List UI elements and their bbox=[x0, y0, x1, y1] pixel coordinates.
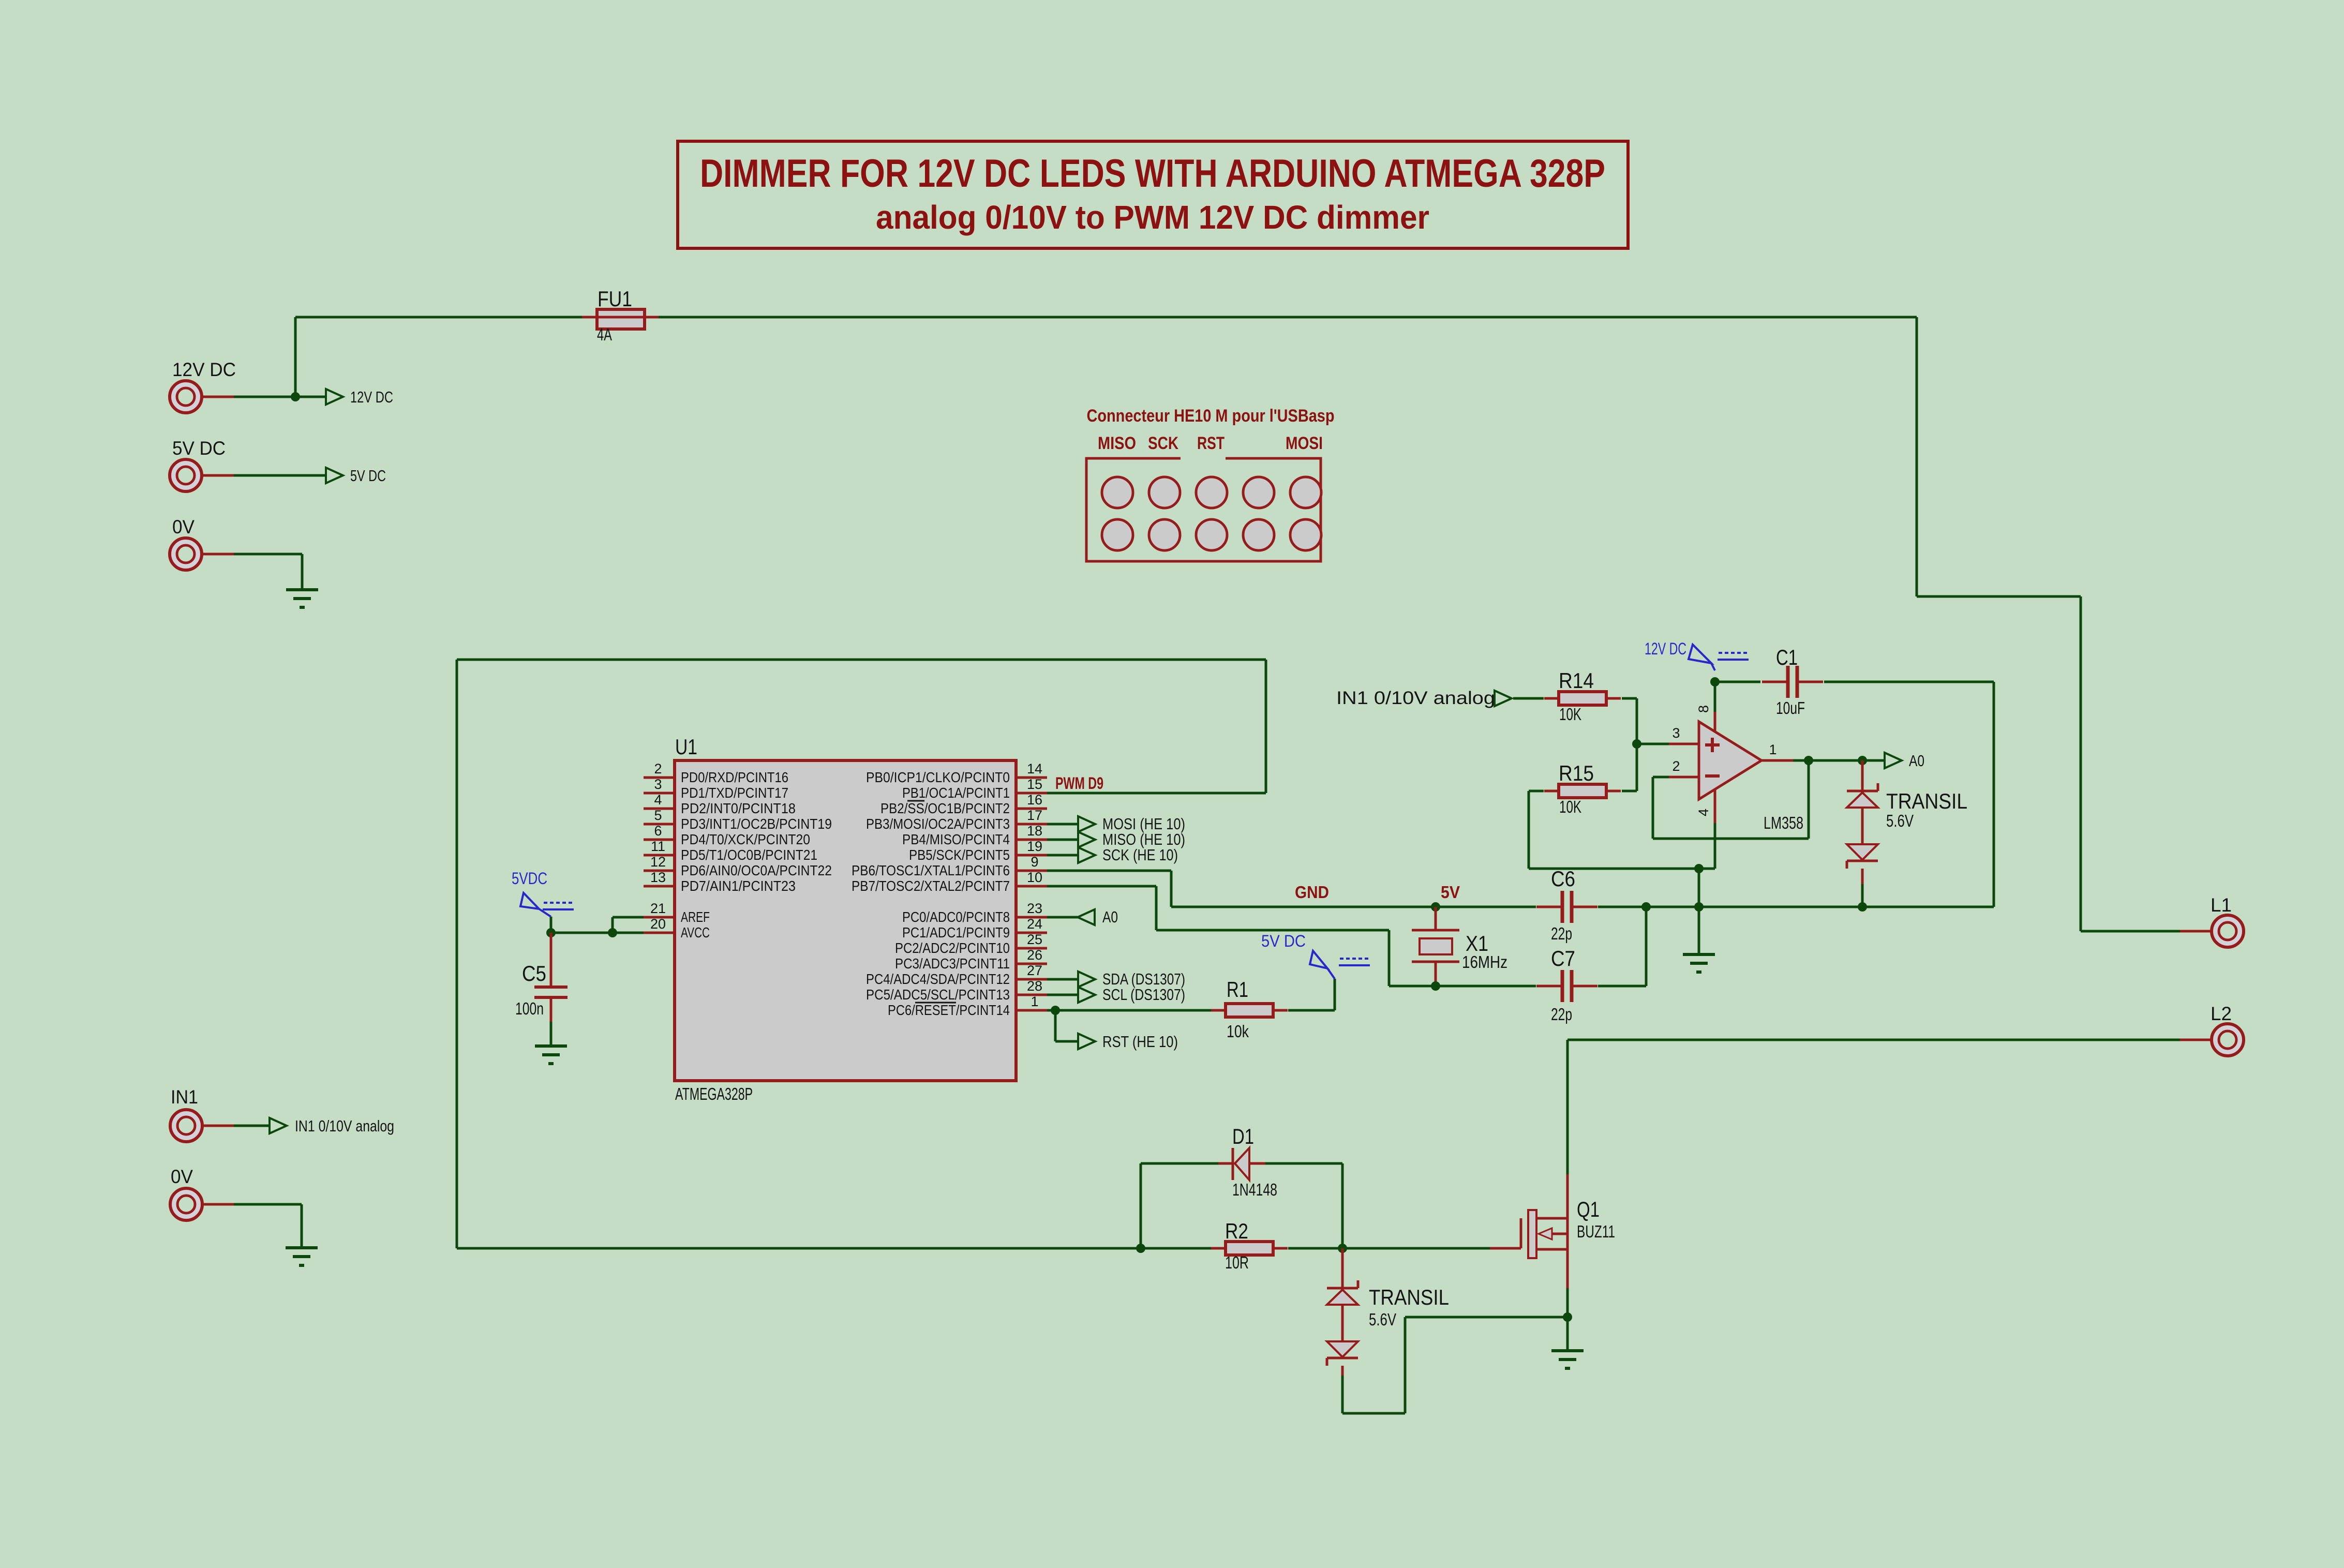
svg-text:PD0/RXD/PCINT16: PD0/RXD/PCINT16 bbox=[681, 769, 788, 785]
svg-text:13: 13 bbox=[650, 870, 666, 885]
svg-text:5V DC: 5V DC bbox=[172, 438, 226, 459]
svg-text:28: 28 bbox=[1027, 978, 1042, 994]
svg-text:PB3/MOSI/OC2A/PCINT3: PB3/MOSI/OC2A/PCINT3 bbox=[866, 816, 1010, 832]
svg-text:Q1: Q1 bbox=[1577, 1197, 1600, 1221]
svg-text:5VDC: 5VDC bbox=[512, 869, 547, 888]
svg-text:R15: R15 bbox=[1559, 761, 1594, 785]
svg-text:FU1: FU1 bbox=[598, 287, 632, 311]
svg-text:18: 18 bbox=[1027, 823, 1042, 839]
svg-text:27: 27 bbox=[1027, 963, 1042, 978]
svg-text:PD2/INT0/PCINT18: PD2/INT0/PCINT18 bbox=[681, 800, 796, 816]
svg-text:IN1: IN1 bbox=[171, 1086, 198, 1108]
svg-text:C1: C1 bbox=[1776, 645, 1798, 669]
svg-text:16MHz: 16MHz bbox=[1462, 952, 1507, 972]
svg-text:PB2/SS/OC1B/PCINT2: PB2/SS/OC1B/PCINT2 bbox=[880, 800, 1010, 816]
svg-text:26: 26 bbox=[1027, 947, 1042, 963]
svg-text:PB0/ICP1/CLKO/PCINT0: PB0/ICP1/CLKO/PCINT0 bbox=[866, 769, 1010, 785]
svg-text:10K: 10K bbox=[1559, 705, 1581, 724]
svg-text:22p: 22p bbox=[1551, 1005, 1572, 1024]
svg-text:10k: 10k bbox=[1227, 1022, 1249, 1041]
svg-text:2: 2 bbox=[1672, 758, 1680, 774]
svg-text:1: 1 bbox=[1769, 742, 1776, 757]
svg-text:11: 11 bbox=[651, 839, 665, 854]
svg-text:5.6V: 5.6V bbox=[1369, 1310, 1396, 1329]
svg-text:PD6/AIN0/OC0A/PCINT22: PD6/AIN0/OC0A/PCINT22 bbox=[681, 862, 832, 878]
svg-text:MOSI: MOSI bbox=[1286, 434, 1323, 453]
svg-text:PD1/TXD/PCINT17: PD1/TXD/PCINT17 bbox=[681, 785, 788, 801]
svg-text:PC3/ADC3/PCINT11: PC3/ADC3/PCINT11 bbox=[895, 955, 1010, 972]
svg-text:1: 1 bbox=[1031, 994, 1038, 1009]
svg-text:RST (HE 10): RST (HE 10) bbox=[1102, 1033, 1178, 1051]
svg-text:9: 9 bbox=[1031, 854, 1038, 870]
svg-text:5: 5 bbox=[654, 808, 662, 823]
svg-text:R14: R14 bbox=[1559, 668, 1594, 693]
svg-text:TRANSIL: TRANSIL bbox=[1369, 1285, 1449, 1309]
svg-text:AVCC: AVCC bbox=[681, 924, 710, 940]
svg-text:ATMEGA328P: ATMEGA328P bbox=[675, 1084, 753, 1103]
svg-text:PB1/OC1A/PCINT1: PB1/OC1A/PCINT1 bbox=[902, 785, 1010, 801]
svg-text:C5: C5 bbox=[522, 961, 546, 985]
svg-text:A0: A0 bbox=[1909, 752, 1924, 770]
svg-text:PD5/T1/OC0B/PCINT21: PD5/T1/OC0B/PCINT21 bbox=[681, 847, 817, 863]
svg-text:AREF: AREF bbox=[681, 909, 710, 925]
svg-text:10uF: 10uF bbox=[1776, 698, 1805, 718]
svg-text:17: 17 bbox=[1027, 808, 1042, 823]
svg-text:PC2/ADC2/PCINT10: PC2/ADC2/PCINT10 bbox=[895, 940, 1010, 956]
svg-text:0V: 0V bbox=[172, 516, 195, 537]
svg-text:SCK (HE 10): SCK (HE 10) bbox=[1102, 846, 1178, 864]
svg-text:15: 15 bbox=[1027, 776, 1042, 792]
svg-text:L1: L1 bbox=[2211, 894, 2232, 916]
svg-text:analog 0/10V to PWM 12V DC dim: analog 0/10V to PWM 12V DC dimmer bbox=[876, 199, 1429, 236]
svg-text:12V DC: 12V DC bbox=[350, 388, 393, 406]
svg-text:R2: R2 bbox=[1225, 1219, 1248, 1243]
svg-text:SCK: SCK bbox=[1148, 434, 1178, 453]
svg-text:PB6/TOSC1/XTAL1/PCINT6: PB6/TOSC1/XTAL1/PCINT6 bbox=[852, 862, 1010, 878]
svg-text:PD7/AIN1/PCINT23: PD7/AIN1/PCINT23 bbox=[681, 878, 796, 894]
svg-text:C6: C6 bbox=[1551, 867, 1575, 891]
svg-text:6: 6 bbox=[654, 823, 662, 839]
svg-text:D1: D1 bbox=[1232, 1124, 1254, 1148]
svg-text:5V: 5V bbox=[1441, 883, 1460, 902]
svg-text:10R: 10R bbox=[1225, 1253, 1249, 1272]
svg-text:TRANSIL: TRANSIL bbox=[1886, 789, 1967, 813]
svg-text:PD4/T0/XCK/PCINT20: PD4/T0/XCK/PCINT20 bbox=[681, 831, 810, 847]
svg-text:MISO: MISO bbox=[1098, 434, 1136, 453]
svg-text:14: 14 bbox=[1027, 761, 1042, 776]
svg-text:GND: GND bbox=[1295, 883, 1329, 902]
svg-text:PC0/ADC0/PCINT8: PC0/ADC0/PCINT8 bbox=[902, 909, 1010, 925]
svg-text:PC6/RESET/PCINT14: PC6/RESET/PCINT14 bbox=[888, 1002, 1010, 1018]
svg-text:PWM D9: PWM D9 bbox=[1055, 774, 1103, 793]
svg-text:10: 10 bbox=[1027, 870, 1042, 885]
svg-text:20: 20 bbox=[650, 916, 666, 932]
svg-text:12V DC: 12V DC bbox=[172, 359, 236, 380]
svg-text:R1: R1 bbox=[1227, 977, 1248, 1002]
svg-text:PB4/MISO/PCINT4: PB4/MISO/PCINT4 bbox=[902, 831, 1010, 847]
svg-text:L2: L2 bbox=[2211, 1003, 2232, 1024]
svg-text:X1: X1 bbox=[1466, 931, 1488, 955]
svg-text:U1: U1 bbox=[675, 735, 697, 759]
svg-text:IN1 0/10V analog: IN1 0/10V analog bbox=[1336, 688, 1495, 708]
svg-text:4: 4 bbox=[654, 792, 662, 808]
svg-text:3: 3 bbox=[1672, 725, 1680, 741]
svg-text:12V DC: 12V DC bbox=[1645, 639, 1686, 658]
svg-text:5.6V: 5.6V bbox=[1886, 811, 1914, 830]
svg-text:PD3/INT1/OC2B/PCINT19: PD3/INT1/OC2B/PCINT19 bbox=[681, 816, 832, 832]
svg-text:2: 2 bbox=[654, 761, 662, 776]
svg-text:SCL (DS1307): SCL (DS1307) bbox=[1102, 985, 1185, 1004]
svg-text:4A: 4A bbox=[597, 325, 612, 344]
svg-text:19: 19 bbox=[1027, 839, 1042, 854]
svg-text:LM358: LM358 bbox=[1764, 813, 1803, 832]
svg-text:3: 3 bbox=[654, 776, 662, 792]
svg-text:C7: C7 bbox=[1551, 946, 1575, 970]
svg-text:PB7/TOSC2/XTAL2/PCINT7: PB7/TOSC2/XTAL2/PCINT7 bbox=[852, 878, 1010, 894]
svg-text:0V: 0V bbox=[171, 1166, 193, 1187]
svg-text:PB5/SCK/PCINT5: PB5/SCK/PCINT5 bbox=[909, 847, 1010, 863]
svg-text:10K: 10K bbox=[1559, 797, 1581, 816]
svg-text:25: 25 bbox=[1027, 932, 1042, 947]
svg-text:DIMMER FOR 12V DC LEDS WITH AR: DIMMER FOR 12V DC LEDS WITH ARDUINO ATME… bbox=[700, 152, 1605, 196]
svg-text:4: 4 bbox=[1696, 809, 1711, 816]
svg-text:A0: A0 bbox=[1102, 908, 1118, 926]
svg-text:RST: RST bbox=[1197, 434, 1225, 453]
svg-text:Connecteur HE10 M pour l'USBas: Connecteur HE10 M pour l'USBasp bbox=[1087, 406, 1335, 426]
svg-text:22p: 22p bbox=[1551, 924, 1572, 943]
svg-text:21: 21 bbox=[650, 901, 666, 916]
svg-text:16: 16 bbox=[1027, 792, 1042, 808]
svg-text:PC5/ADC5/SCL/PCINT13: PC5/ADC5/SCL/PCINT13 bbox=[866, 987, 1010, 1003]
svg-text:1N4148: 1N4148 bbox=[1232, 1180, 1277, 1199]
svg-text:100n: 100n bbox=[515, 999, 544, 1018]
svg-text:PC4/ADC4/SDA/PCINT12: PC4/ADC4/SDA/PCINT12 bbox=[866, 971, 1010, 987]
svg-text:PC1/ADC1/PCINT9: PC1/ADC1/PCINT9 bbox=[902, 924, 1010, 940]
svg-text:5V DC: 5V DC bbox=[350, 467, 386, 485]
svg-text:IN1 0/10V analog: IN1 0/10V analog bbox=[295, 1117, 394, 1135]
svg-text:23: 23 bbox=[1027, 901, 1042, 916]
svg-text:5V DC: 5V DC bbox=[1261, 932, 1306, 950]
svg-text:24: 24 bbox=[1027, 916, 1042, 932]
svg-text:BUZ11: BUZ11 bbox=[1577, 1222, 1615, 1241]
svg-text:12: 12 bbox=[650, 854, 666, 870]
svg-text:8: 8 bbox=[1696, 705, 1711, 713]
